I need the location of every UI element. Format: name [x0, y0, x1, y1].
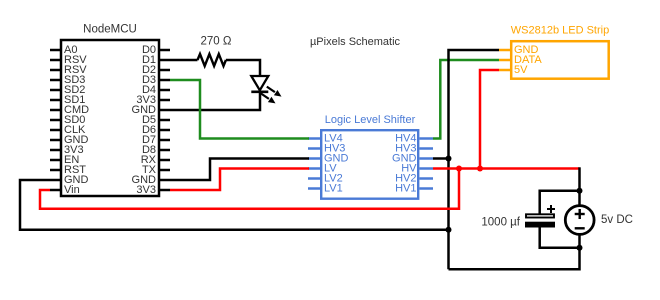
- source plus symbol: [575, 209, 585, 219]
- NodeMCU left pin SD0: [50, 114, 85, 126]
- capacitor C1 top plate: [526, 214, 554, 217]
- wire capacitor bottom to source negative: [540, 227, 580, 247]
- LED light emission arrow 1: [267, 87, 282, 97]
- shifter right pin HV2: [395, 173, 433, 185]
- NodeMCU left pin A0: [50, 44, 77, 56]
- NodeMCU left pin GND: [50, 134, 89, 146]
- wire shifter HV4 to WS2812b DATA (green): [433, 60, 499, 139]
- wire NodeMCU right 3V3 to shifter LV (red): [170, 169, 309, 191]
- wire Vin to 5V rail (red): [40, 169, 459, 209]
- NodeMCU left pin 3V3: [50, 144, 84, 156]
- svg-text:µPixels Schematic: µPixels Schematic: [310, 36, 401, 48]
- shifter left pin LV4: [308, 133, 343, 145]
- WS2812b pin DATA: [499, 54, 542, 66]
- NodeMCU right pin RX: [141, 154, 170, 166]
- resistor R1 zigzag: [198, 54, 226, 66]
- NodeMCU right pin D6: [142, 124, 170, 136]
- NodeMCU right pin GND: [132, 104, 170, 116]
- wire capacitor top to source positive: [540, 191, 580, 214]
- svg-text:NodeMCU: NodeMCU: [83, 24, 137, 36]
- NodeMCU left pin SD1: [50, 94, 85, 106]
- IC U1 NodeMCU body: [61, 40, 159, 196]
- wire shifter GND to GND bus: [433, 157, 449, 160]
- voltage source V1 circle: [565, 206, 594, 235]
- wire LED cathode to GND pin: [170, 92, 260, 110]
- Logic Level Shifter title label: [325, 114, 416, 126]
- svg-text:LV1: LV1: [324, 183, 343, 195]
- wire D1 to resistor R1: [170, 59, 198, 62]
- svg-text:WS2812b LED Strip: WS2812b LED Strip: [511, 25, 609, 37]
- wire D3 to shifter LV4 (green): [170, 80, 309, 139]
- LED light emission arrow 2: [261, 93, 276, 103]
- source minus symbol: [575, 227, 585, 229]
- NodeMCU left pin RSV: [50, 64, 87, 76]
- shifter right pin HV3: [395, 143, 433, 155]
- NodeMCU left pin EN: [50, 154, 79, 166]
- svg-text:3V3: 3V3: [136, 184, 156, 196]
- NodeMCU right pin D8: [142, 144, 170, 156]
- wire shifter HV to 5V rail (red): [433, 167, 580, 170]
- NodeMCU right pin D5: [142, 114, 170, 126]
- NodeMCU title label: [83, 24, 137, 36]
- LED D1 cathode bar: [251, 91, 268, 94]
- wire resistor to LED anode: [226, 60, 260, 76]
- NodeMCU left pin RSV: [50, 54, 87, 66]
- GND bus vertical wire: [449, 50, 500, 269]
- junction 5V rail / Vin riser: [456, 166, 462, 172]
- shifter left pin LV2: [308, 173, 343, 185]
- NodeMCU right pin D4: [142, 84, 170, 96]
- NodeMCU right pin D1: [142, 54, 170, 66]
- NodeMCU left pin Vin: [50, 184, 80, 196]
- module U3 WS2812b LED Strip body: [511, 41, 609, 78]
- svg-text:HV1: HV1: [395, 183, 416, 195]
- shifter right pin HV1: [395, 183, 433, 195]
- svg-text:5v DC: 5v DC: [601, 214, 633, 226]
- wire 5V rail to source positive: [578, 167, 581, 205]
- wire NodeMCU left GND to GND bus: [20, 180, 449, 230]
- capacitor value label 1000 &#181;f: [481, 217, 520, 229]
- capacitor polarity plus sign: [547, 205, 555, 213]
- resistor value label 270 &#937;: [201, 36, 232, 48]
- WS2812b LED Strip title label: [511, 25, 609, 37]
- schematic title: [310, 36, 401, 48]
- svg-text:5V: 5V: [514, 64, 528, 76]
- svg-text:270 Ω: 270 Ω: [201, 36, 232, 48]
- shifter right pin HV4: [395, 133, 433, 145]
- junction capacitor bottom / source negative: [577, 245, 583, 251]
- capacitor C1 bottom plate: [525, 222, 555, 228]
- bottom GND bus wire to source negative: [449, 235, 580, 270]
- NodeMCU left pin CMD: [50, 104, 89, 116]
- shifter left pin HV3: [308, 143, 345, 155]
- NodeMCU right pin D2: [142, 64, 170, 76]
- NodeMCU right pin D7: [142, 134, 170, 146]
- junction capacitor top / source positive: [577, 188, 583, 194]
- WS2812b pin 5V: [499, 64, 528, 76]
- svg-text:Logic Level Shifter: Logic Level Shifter: [325, 114, 416, 126]
- junction GND bus / NodeMCU GND return: [446, 227, 452, 233]
- shifter left pin LV1: [308, 183, 343, 195]
- NodeMCU left pin SD2: [50, 84, 85, 96]
- NodeMCU left pin GND: [50, 174, 89, 186]
- NodeMCU left pin SD3: [50, 74, 85, 86]
- shifter left pin GND: [308, 153, 349, 165]
- NodeMCU right pin TX: [142, 164, 170, 176]
- NodeMCU right pin 3V3: [136, 184, 170, 196]
- shifter right pin GND: [392, 153, 433, 165]
- NodeMCU left pin CLK: [50, 124, 86, 136]
- junction GND bus / shifter GND: [446, 156, 452, 162]
- wire 5V rail riser to WS2812b 5V (red): [480, 70, 499, 169]
- junction 5V rail / WS2812b riser: [477, 166, 483, 172]
- NodeMCU right pin D3: [142, 74, 170, 86]
- LED D1 triangle: [251, 76, 268, 90]
- NodeMCU right pin GND: [132, 174, 170, 186]
- shifter left pin LV: [308, 163, 337, 175]
- source value label 5v DC: [601, 214, 633, 226]
- NodeMCU right pin 3V3: [136, 94, 170, 106]
- svg-text:Vin: Vin: [64, 184, 80, 196]
- IC U2 Logic Level Shifter body: [321, 130, 418, 199]
- NodeMCU right pin D0: [142, 44, 170, 56]
- svg-text:1000 µf: 1000 µf: [481, 217, 520, 229]
- shifter right pin HV: [401, 163, 433, 175]
- NodeMCU left pin RST: [50, 164, 86, 176]
- wire NodeMCU right GND to shifter GND: [170, 159, 309, 181]
- WS2812b pin GND: [499, 44, 539, 56]
